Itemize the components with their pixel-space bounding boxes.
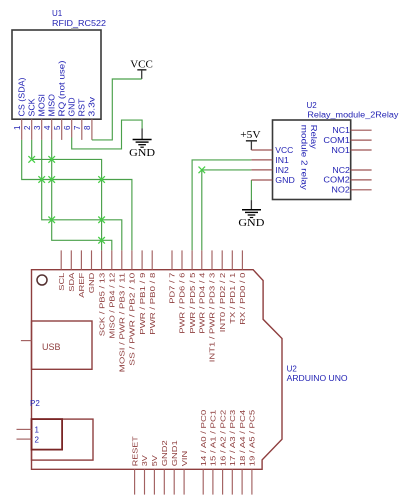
junction X at CS x MISO [48, 176, 55, 183]
Arduino bottom pin stubs [135, 469, 252, 494]
svg-text:AREF: AREF [77, 272, 86, 297]
USB box [32, 321, 93, 369]
svg-text:GND: GND [129, 147, 155, 159]
svg-text:2: 2 [23, 125, 32, 130]
svg-text:3: 3 [33, 125, 42, 130]
pin 10 stub [131, 250, 133, 269]
pin 2 stub [221, 250, 223, 269]
svg-text:RST: RST [78, 98, 87, 116]
U1 body box [12, 30, 101, 119]
svg-text:USB: USB [42, 342, 61, 352]
pin 0 stub [241, 250, 243, 269]
U2 pin IN1 stub [251, 159, 272, 161]
U1 pin 5 stub [61, 119, 63, 140]
svg-text:RESET: RESET [130, 436, 139, 466]
svg-text:1: 1 [13, 125, 22, 130]
VCC power symbol [130, 59, 153, 80]
junction X marks [28, 156, 205, 244]
svg-text:19 / A5 / PC5: 19 / A5 / PC5 [248, 410, 257, 467]
svg-text:PWR / PB1 / 9: PWR / PB1 / 9 [138, 273, 147, 335]
wire MOSI: U1 pin3 to Arduino pin 11 [42, 140, 122, 251]
U1 pin 7 stub [81, 119, 83, 140]
svg-text:5: 5 [53, 125, 62, 130]
svg-text:PWR / PB0 / 8: PWR / PB0 / 8 [148, 273, 157, 335]
svg-text:5V: 5V [150, 454, 159, 466]
svg-text:INT0 / PD2 / 2: INT0 / PD2 / 2 [218, 273, 227, 333]
pin 5V stub [153, 469, 155, 494]
svg-text:16 / A2 / PC2: 16 / A2 / PC2 [218, 410, 227, 467]
svg-text:SDA: SDA [67, 272, 76, 292]
svg-text:1: 1 [35, 426, 40, 435]
svg-text:COM2: COM2 [323, 176, 350, 185]
pin 1 stub [231, 250, 233, 269]
svg-text:VCC: VCC [130, 59, 153, 71]
svg-text:GND: GND [87, 272, 96, 293]
svg-text:CS (SDA): CS (SDA) [17, 77, 26, 116]
Arduino corner circle [37, 275, 47, 285]
pin 4 stub [201, 250, 203, 269]
pin 8 stub [151, 250, 153, 269]
pin 5 stub [191, 250, 193, 269]
svg-text:NC2: NC2 [332, 166, 350, 175]
svg-text:3V: 3V [140, 454, 149, 466]
svg-text:U1: U1 [52, 9, 63, 18]
junction X at CS x SCK vertical [98, 176, 105, 183]
U2 pin IN2 stub [251, 169, 272, 171]
pin AREF stub [80, 250, 82, 269]
svg-text:Relay_module_2Relay: Relay_module_2Relay [307, 111, 398, 120]
svg-text:SS / PWR / PB2 / 10: SS / PWR / PB2 / 10 [128, 273, 137, 366]
svg-text:MISO / PB4 / 12: MISO / PB4 / 12 [108, 273, 117, 339]
wire 3.3v: U1 pin8 to VCC symbol [92, 79, 142, 140]
Arduino UNO U2 [17, 270, 348, 470]
svg-text:TX / PD1 / 1: TX / PD1 / 1 [228, 273, 237, 324]
pin 17/A3 stub [231, 469, 233, 494]
svg-text:RFID_RC522: RFID_RC522 [52, 19, 107, 28]
svg-text:6: 6 [63, 125, 72, 130]
svg-text:VCC: VCC [275, 146, 293, 155]
wire CS: U1 pin1 to Arduino pin 10 [22, 140, 132, 251]
svg-text:14 / A0 / PC0: 14 / A0 / PC0 [199, 410, 208, 467]
junction X at SCK x MISO [48, 156, 55, 163]
svg-text:GND2: GND2 [160, 440, 169, 466]
U2 pin GND stub [251, 179, 272, 181]
wire IN2: Arduino pin 4 to relay IN2 [202, 170, 252, 251]
svg-text:IN2: IN2 [275, 166, 289, 175]
svg-text:8: 8 [83, 125, 92, 130]
junction X at CS x MOSI [38, 176, 45, 183]
svg-text:PWR / PD4 / 4: PWR / PD4 / 4 [198, 273, 207, 334]
U2 pin NC2 stub [351, 169, 372, 171]
pin 3 stub [211, 250, 213, 269]
svg-text:GND: GND [275, 176, 295, 185]
pin GND1 stub [173, 469, 175, 494]
svg-text:PD7 / 7: PD7 / 7 [168, 273, 177, 304]
U2 pin NC1 stub [351, 129, 372, 131]
USB pin stub [21, 340, 32, 342]
svg-text:COM1: COM1 [323, 136, 350, 145]
U2 pin VCC stub [251, 149, 272, 151]
wire IN1: Arduino pin 5 to relay IN1 [192, 160, 251, 251]
svg-text:RX / PD0 / 0: RX / PD0 / 0 [238, 273, 247, 325]
pin 16/A2 stub [222, 469, 224, 494]
U1 pin 1 stub [21, 119, 23, 140]
junction X at MOSI x SCK vertical [98, 217, 105, 224]
svg-text:NO1: NO1 [331, 146, 350, 155]
svg-text:3.3v: 3.3v [88, 97, 97, 117]
svg-text:MOSI: MOSI [37, 94, 46, 117]
junction X at MISO x SCK vertical [98, 237, 105, 244]
svg-text:+5V: +5V [240, 129, 260, 141]
pin 12 stub [111, 250, 113, 269]
pin 14/A0 stub [202, 469, 204, 494]
pin SCL stub [60, 250, 62, 269]
pin 18/A4 stub [241, 469, 243, 494]
svg-text:4: 4 [43, 125, 52, 130]
svg-text:Relay: Relay [309, 125, 318, 149]
pin GND2 stub [163, 469, 165, 494]
junction X at SCK corner [28, 156, 35, 163]
wire GND: U1 pin6 to GND symbol [72, 120, 142, 149]
svg-text:PWR / PD6 / 6: PWR / PD6 / 6 [178, 273, 187, 334]
svg-text:module 2 relay: module 2 relay [300, 125, 309, 190]
svg-text:18 / A4 / PC4: 18 / A4 / PC4 [238, 410, 247, 467]
pin 11 stub [121, 250, 123, 269]
Arduino body outline [32, 270, 283, 470]
svg-text:2: 2 [35, 435, 40, 444]
U2 pin COM1 stub [351, 139, 372, 141]
U1 pin 3 stub [41, 119, 43, 140]
pin GND stub [91, 250, 93, 269]
pin SDA stub [70, 250, 72, 269]
svg-text:IN1: IN1 [275, 156, 289, 165]
svg-text:17 / A3 / PC3: 17 / A3 / PC3 [228, 410, 237, 467]
P2 connector box [32, 419, 63, 450]
+5V power symbol [240, 129, 260, 150]
pin 3V stub [144, 469, 146, 494]
junction X at MOSI x MISO [48, 217, 55, 224]
svg-text:GND: GND [67, 97, 76, 116]
U1 pin 8 stub [91, 119, 93, 140]
wire SCK: U1 pin2 to Arduino pin 13 [32, 140, 102, 251]
wire MISO: U1 pin4 to Arduino pin 12 [52, 140, 112, 251]
svg-text:SCK / PB5 / 13: SCK / PB5 / 13 [97, 273, 106, 337]
GND symbol near relay [238, 200, 264, 229]
pin 19/A5 stub [251, 469, 253, 494]
svg-text:GND1: GND1 [170, 440, 179, 466]
svg-text:GND: GND [238, 217, 264, 229]
svg-text:15 / A1 / PC1: 15 / A1 / PC1 [209, 410, 218, 467]
svg-text:INT1 / PWR / PD3 / 3: INT1 / PWR / PD3 / 3 [208, 273, 217, 363]
pin 9 stub [141, 250, 143, 269]
P2 pin 2 stub [17, 438, 32, 440]
pin 6 stub [181, 250, 183, 269]
GND symbol near U1 [129, 129, 155, 159]
RFID module U1 [12, 9, 107, 140]
U2 pin NO1 stub [351, 149, 372, 151]
pin VIN stub [183, 469, 185, 494]
U2 pin NO2 stub [351, 189, 372, 191]
svg-text:P2: P2 [30, 399, 40, 408]
svg-text:RQ (not use): RQ (not use) [57, 60, 66, 116]
svg-text:MISO: MISO [47, 94, 56, 117]
Arduino bottom pin labels [130, 410, 256, 467]
U1 pin 6 stub [71, 119, 73, 137]
svg-text:7: 7 [73, 125, 82, 130]
svg-text:NC1: NC1 [332, 126, 350, 135]
P2 pin 1 stub [17, 428, 32, 430]
Relay module U2 [251, 101, 398, 200]
U1 pin 2 stub [31, 119, 33, 140]
svg-text:PWR / PD5 / 5: PWR / PD5 / 5 [188, 273, 197, 334]
U1 top tick [71, 28, 79, 30]
U2 body box [273, 120, 351, 200]
Arduino top pin labels [57, 272, 247, 373]
pin RESET stub [134, 469, 136, 494]
svg-text:MOSI / PWR / PB3 / 11: MOSI / PWR / PB3 / 11 [118, 273, 127, 373]
svg-text:SCL: SCL [57, 273, 66, 291]
svg-text:VIN: VIN [180, 451, 189, 467]
svg-text:NO2: NO2 [331, 186, 350, 195]
svg-text:U2: U2 [287, 365, 298, 374]
junction X at IN2 corner [199, 167, 206, 174]
Arduino top pin stubs [61, 250, 242, 269]
svg-text:ARDUINO UNO: ARDUINO UNO [287, 374, 348, 383]
U1 pin 4 stub [51, 119, 53, 140]
U2 pin COM2 stub [351, 179, 372, 181]
svg-text:U2: U2 [307, 101, 318, 110]
pin 13 stub [101, 250, 103, 269]
pin 15/A1 stub [212, 469, 214, 494]
wire relay GND to GND symbol [250, 180, 252, 200]
power jack box [32, 419, 94, 460]
pin 7 stub [171, 250, 173, 269]
svg-text:SCK: SCK [27, 98, 36, 117]
